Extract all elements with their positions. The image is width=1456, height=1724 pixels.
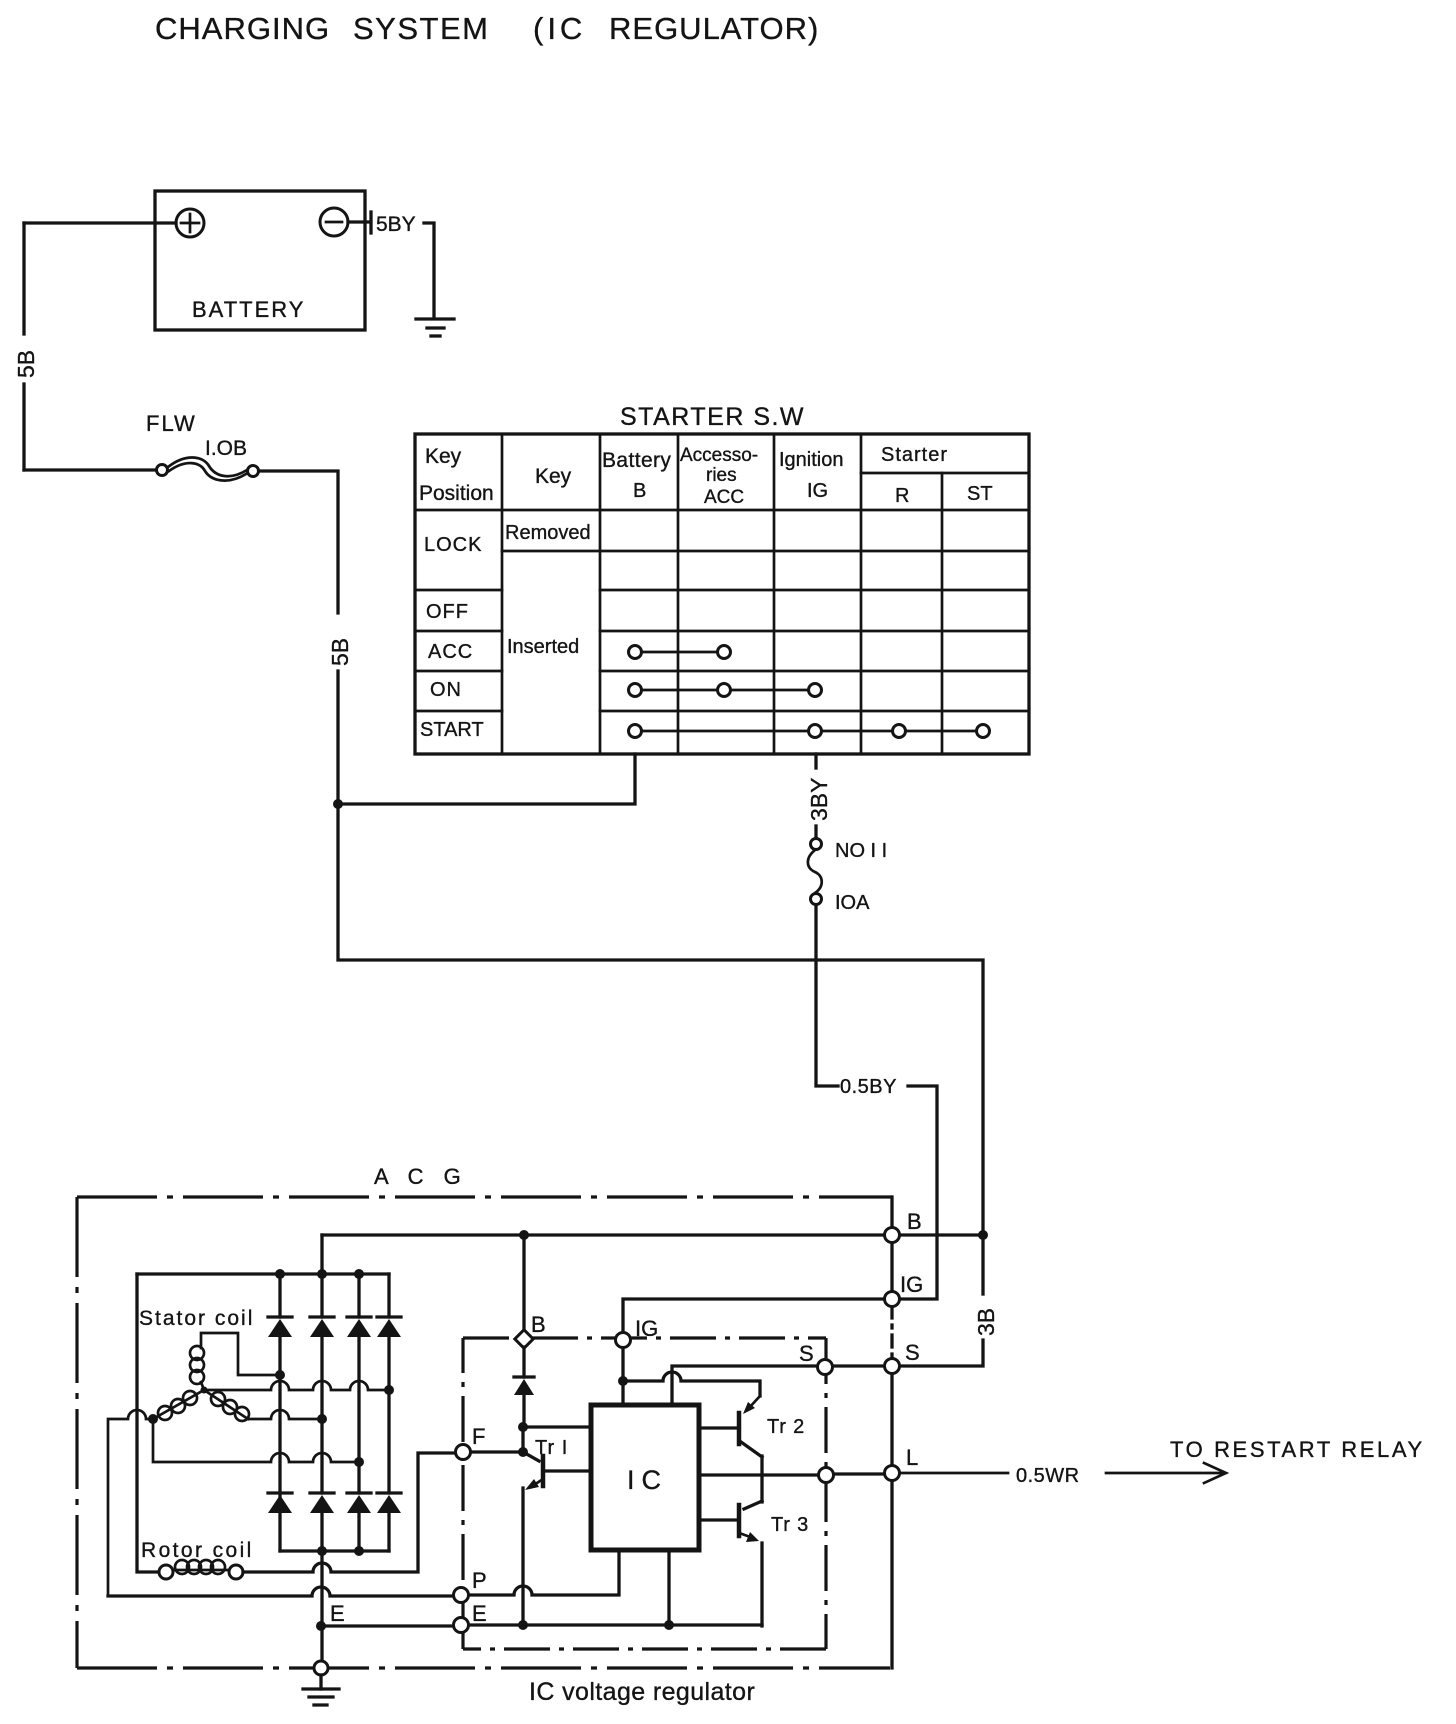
- svg-text:IG: IG: [807, 480, 828, 502]
- junction B rail / inner B drop: [519, 1230, 529, 1240]
- wire inner B drop: [522, 1235, 525, 1330]
- svg-text:Tr 3: Tr 3: [771, 1514, 809, 1536]
- svg-text:0.5WR: 0.5WR: [1016, 1465, 1080, 1487]
- wire arrow to restart relay: [1106, 1472, 1222, 1475]
- wire diode to node: [522, 1395, 525, 1427]
- svg-text:0.5BY: 0.5BY: [840, 1076, 897, 1098]
- MID WIRES: [338, 754, 937, 1299]
- wire 5BY to ground: [424, 223, 434, 318]
- svg-text:LOCK: LOCK: [424, 534, 482, 556]
- ACG border top: [77, 1195, 892, 1198]
- contact line ACC row: [642, 651, 717, 654]
- contact circles START row: [629, 725, 642, 738]
- terminal B inner (diamond): [515, 1330, 533, 1348]
- terminal IG ACG: [885, 1292, 900, 1307]
- rectifier bottom rail: [280, 1549, 389, 1552]
- stator phase1 L wire: [201, 1333, 280, 1375]
- stator winding left: [183, 1391, 197, 1405]
- wire to fusible link: [24, 468, 157, 471]
- junction left winding node: [148, 1414, 158, 1424]
- svg-text:Rotor coil: Rotor coil: [141, 1539, 254, 1562]
- junction center/col4: [384, 1385, 394, 1395]
- wire S inner to ACG S: [833, 1364, 886, 1367]
- svg-text:3BY: 3BY: [806, 778, 832, 821]
- svg-text:OFF: OFF: [426, 601, 469, 623]
- ground battery: [416, 317, 454, 320]
- diode D8 lower: [377, 1491, 401, 1494]
- junction top rail col2: [317, 1269, 327, 1279]
- wire 5B down to junction: [336, 671, 339, 804]
- svg-text:ACC: ACC: [704, 487, 744, 508]
- svg-text:Ignition: Ignition: [779, 449, 844, 471]
- ACG border right IG to S dash-dot: [890, 1306, 893, 1360]
- IC REGULATOR: [454, 1235, 887, 1706]
- diode D5 lower: [268, 1491, 292, 1494]
- diode D1 upper: [268, 1315, 292, 1318]
- svg-text:SYSTEM: SYSTEM: [353, 11, 489, 46]
- wire B rail to rectifier rail: [320, 1235, 323, 1274]
- transistor Tr2: [748, 1396, 760, 1409]
- svg-text:ON: ON: [430, 679, 462, 701]
- junction diode/IC node: [518, 1422, 528, 1432]
- wire IC bottom to E: [667, 1550, 670, 1625]
- terminal B ACG: [885, 1228, 900, 1243]
- contact line START row: [642, 730, 976, 733]
- table outer frame: [415, 434, 1029, 754]
- fuse NO11 element: [808, 850, 822, 893]
- wire IG node into IC: [621, 1381, 624, 1405]
- svg-text:Position: Position: [419, 482, 494, 505]
- rotor coil winding: [175, 1560, 189, 1574]
- wire E node to E terminal: [321, 1624, 454, 1627]
- diode D7 lower: [347, 1491, 371, 1494]
- diode D9: [514, 1375, 534, 1378]
- svg-text:IC: IC: [627, 1465, 668, 1495]
- terminal S ACG: [885, 1359, 900, 1374]
- junction 5B/table-B: [333, 799, 343, 809]
- rotor coil terminals: [159, 1565, 173, 1579]
- wire B to diode: [522, 1347, 525, 1377]
- wire minus feed: [348, 220, 369, 223]
- svg-text:CHARGING: CHARGING: [155, 11, 330, 46]
- terminal E inner: [454, 1618, 469, 1633]
- regulator border left: [461, 1338, 464, 1649]
- battery box: [155, 191, 365, 330]
- wire fuse down to 0.5BY corner: [816, 905, 838, 1086]
- fuse NO11 terminals: [811, 839, 822, 850]
- IC box U1: [591, 1405, 699, 1550]
- diode D3 upper: [347, 1315, 371, 1318]
- svg-text:BATTERY: BATTERY: [192, 297, 305, 322]
- stator winding right: [211, 1392, 225, 1406]
- svg-text:TO RESTART RELAY: TO RESTART RELAY: [1170, 1437, 1425, 1462]
- svg-text:Stator coil: Stator coil: [139, 1307, 254, 1330]
- fusible link FLW terminals: [157, 465, 168, 476]
- terminal L inner: [819, 1468, 834, 1483]
- wire L from IC: [699, 1473, 818, 1476]
- regulator border top: [463, 1336, 826, 1339]
- wire Tr2 emitter to Tr3 collector: [760, 1456, 763, 1502]
- fusible link element: [168, 457, 247, 476]
- svg-text:ries: ries: [706, 465, 737, 486]
- ACG BOX: [77, 1164, 892, 1668]
- junction phase1/col1: [275, 1370, 285, 1380]
- svg-text:S: S: [799, 1341, 814, 1366]
- stator phase2 wire to col2: [248, 1410, 322, 1419]
- rectifier top rail: [137, 1272, 389, 1275]
- wire L out: [900, 1472, 1008, 1475]
- diode column 1 mid wire: [278, 1337, 281, 1551]
- diode column 3 wire: [357, 1274, 360, 1551]
- svg-text:B: B: [633, 480, 646, 502]
- ACG border left: [75, 1197, 78, 1668]
- wire F to node: [471, 1450, 523, 1453]
- svg-text:F: F: [472, 1424, 485, 1449]
- contact circles ACC row: [629, 646, 642, 659]
- wire E run: [469, 1623, 762, 1626]
- wire 3B riser upper: [981, 1235, 984, 1294]
- stator winding vertical: [190, 1346, 204, 1360]
- svg-text:5BY: 5BY: [376, 213, 416, 236]
- contact circles ON row: [629, 684, 642, 697]
- wire L inner to ACG L: [834, 1472, 886, 1475]
- contact line ON row: [642, 689, 808, 692]
- diode column 2 wire: [320, 1274, 323, 1551]
- wire fuse to corner: [259, 471, 338, 613]
- junction IC/E: [664, 1620, 674, 1630]
- svg-text:(IC: (IC: [533, 11, 586, 46]
- wire S inner: [672, 1366, 818, 1405]
- RIGHT TERMINALS: [885, 1209, 1425, 1487]
- diode D6 lower: [310, 1491, 334, 1494]
- wire down to long run: [338, 804, 983, 1235]
- svg-text:A C G: A C G: [374, 1164, 468, 1189]
- svg-text:ST: ST: [967, 483, 993, 505]
- terminal F: [456, 1445, 471, 1460]
- svg-text:IG: IG: [635, 1316, 658, 1341]
- wire P feed: [108, 1587, 454, 1596]
- wire table IG column down: [814, 754, 817, 768]
- svg-text:Removed: Removed: [505, 522, 591, 544]
- svg-text:S: S: [905, 1340, 920, 1365]
- svg-text:STARTER S.W: STARTER S.W: [620, 403, 805, 431]
- terminal S inner: [818, 1360, 833, 1375]
- wire left vertical 5B lower: [22, 384, 25, 470]
- diode D4 upper: [377, 1315, 401, 1318]
- table column lines: [502, 434, 942, 754]
- diode column 4 wire: [387, 1274, 390, 1551]
- wire node to IC: [523, 1425, 591, 1428]
- wire ACG IG to inner IG: [623, 1299, 886, 1331]
- RECTIFIER AND COILS: [108, 1230, 988, 1705]
- terminal IG inner: [616, 1333, 631, 1348]
- junction top rail col1: [275, 1269, 285, 1279]
- diode D2 upper: [310, 1315, 334, 1318]
- svg-text:START: START: [420, 719, 484, 741]
- BATTERY: [13, 191, 454, 470]
- svg-text:Inserted: Inserted: [507, 636, 579, 658]
- TITLE: [155, 11, 819, 46]
- svg-text:NO I I: NO I I: [835, 840, 887, 862]
- svg-text:L: L: [906, 1445, 918, 1470]
- terminal P: [454, 1588, 469, 1603]
- wire plus feed: [24, 221, 176, 224]
- svg-text:Tr I: Tr I: [535, 1437, 568, 1459]
- svg-text:I.OB: I.OB: [205, 437, 247, 460]
- wire left node to left vertical: [108, 1410, 153, 1596]
- junction F node: [518, 1447, 528, 1457]
- ACG border right below L: [890, 1480, 893, 1668]
- wire S to 3B riser: [900, 1340, 983, 1366]
- svg-text:R: R: [895, 485, 909, 507]
- svg-text:Starter: Starter: [881, 444, 948, 466]
- wire table B column down: [338, 754, 635, 804]
- svg-text:ACC: ACC: [428, 641, 473, 663]
- battery plus terminal: [176, 209, 204, 237]
- diode column 1 upper wire: [278, 1274, 281, 1317]
- transistor Tr3: [744, 1501, 762, 1509]
- junction phase3/col3: [354, 1457, 364, 1467]
- junction bottom rail col3: [354, 1546, 364, 1556]
- wire 0.5BY to IG drop: [900, 1086, 937, 1299]
- stator center wire to col4: [207, 1381, 389, 1390]
- wire IG node to Tr2 collector: [623, 1372, 760, 1396]
- junction B rail / 5B: [978, 1230, 988, 1240]
- svg-text:3B: 3B: [973, 1308, 999, 1336]
- FUSIBLE LINK: [24, 411, 983, 1235]
- svg-text:Tr 2: Tr 2: [767, 1416, 805, 1438]
- wire rotor to F: [243, 1453, 456, 1572]
- svg-text:IOA: IOA: [835, 892, 870, 914]
- svg-text:P: P: [472, 1568, 487, 1593]
- stator Y center: [201, 1387, 208, 1394]
- ACG border right upper: [890, 1197, 893, 1228]
- svg-text:Accesso-: Accesso-: [680, 445, 758, 466]
- svg-text:FLW: FLW: [146, 411, 197, 436]
- terminal L ACG: [885, 1466, 900, 1481]
- wire IG down to node: [621, 1348, 624, 1381]
- battery minus terminal: [320, 208, 348, 236]
- svg-text:E: E: [472, 1601, 487, 1626]
- junction E node: [316, 1621, 326, 1631]
- svg-text:REGULATOR): REGULATOR): [609, 11, 819, 46]
- ground ACG: [319, 1675, 322, 1689]
- arrowhead: [1204, 1463, 1226, 1483]
- svg-text:Key: Key: [425, 445, 462, 468]
- wire Tr1 emitter down: [521, 1488, 524, 1625]
- stator phase3 wire to col3: [153, 1419, 359, 1462]
- svg-text:Key: Key: [535, 465, 572, 488]
- rectifier left edge: [137, 1274, 159, 1572]
- ACG border right B to IG: [890, 1242, 893, 1293]
- junction phase2/col2: [317, 1414, 327, 1424]
- ground terminal circle: [314, 1661, 328, 1675]
- svg-text:IG: IG: [900, 1272, 923, 1297]
- regulator border right: [824, 1338, 827, 1649]
- transistor Tr1: [523, 1452, 539, 1461]
- wire Tr3 emitter down to E: [760, 1543, 763, 1626]
- svg-text:B: B: [531, 1312, 546, 1337]
- junction bottom rail col2: [317, 1546, 327, 1556]
- junction IG node: [618, 1376, 628, 1386]
- svg-text:5B: 5B: [327, 638, 353, 666]
- table row lines: [861, 472, 1029, 475]
- wire E node down to ground: [320, 1551, 323, 1661]
- wire B rail: [322, 1233, 886, 1236]
- wire node down to F node: [521, 1427, 524, 1452]
- svg-text:5B: 5B: [13, 350, 39, 378]
- regulator border bottom: [463, 1647, 826, 1650]
- ACG border bottom: [77, 1666, 890, 1669]
- wire left vertical 5B upper: [22, 223, 25, 334]
- wire P to IC: [469, 1550, 619, 1595]
- wire 3BY to fuse: [814, 826, 817, 838]
- tick before 5BY: [369, 212, 372, 233]
- svg-text:B: B: [907, 1209, 922, 1234]
- svg-text:E: E: [330, 1601, 345, 1626]
- junction top rail col3: [354, 1269, 364, 1279]
- svg-text:IC voltage regulator: IC voltage regulator: [529, 1678, 755, 1706]
- ACG border right S to L: [890, 1373, 893, 1466]
- svg-text:Battery: Battery: [602, 449, 671, 472]
- junction emitter/E wire: [518, 1620, 528, 1630]
- STARTER SWITCH TABLE: [415, 403, 1029, 754]
